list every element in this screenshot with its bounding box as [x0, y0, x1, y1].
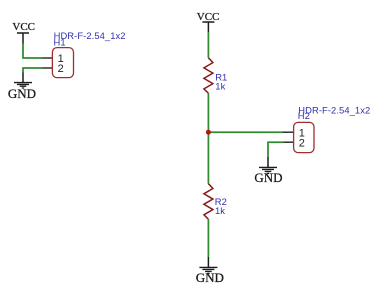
- svg-text:GND: GND: [254, 170, 282, 185]
- svg-text:GND: GND: [8, 86, 36, 101]
- svg-text:GND: GND: [196, 270, 224, 285]
- svg-text:1k: 1k: [215, 81, 225, 92]
- svg-text:2: 2: [299, 138, 305, 150]
- svg-text:VCC: VCC: [12, 21, 35, 33]
- svg-text:H1: H1: [54, 37, 66, 48]
- svg-text:H2: H2: [298, 110, 310, 121]
- svg-text:VCC: VCC: [197, 11, 220, 23]
- svg-text:1k: 1k: [215, 205, 225, 216]
- svg-text:2: 2: [58, 63, 64, 75]
